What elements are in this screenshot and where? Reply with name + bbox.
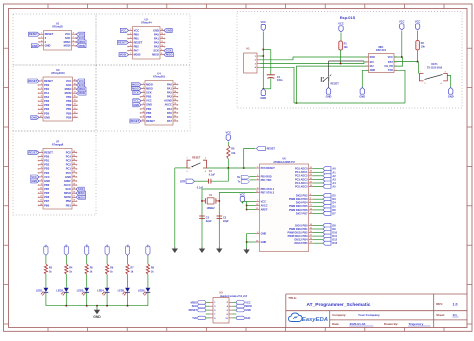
svg-text:PB1: PB1: [134, 36, 140, 40]
net flag D10: [323, 231, 331, 235]
svg-text:GND: GND: [93, 315, 101, 319]
ground GA3: [218, 247, 220, 249]
wire: [65, 274, 67, 287]
svg-text:MISO: MISO: [64, 191, 71, 195]
svg-text:PB1: PB1: [66, 203, 72, 207]
svg-text:RESET: RESET: [44, 150, 53, 154]
svg-text:PB6 XTAL1: PB6 XTAL1: [261, 187, 275, 191]
svg-text:14: 14: [161, 28, 163, 31]
wire: [313, 232, 323, 234]
svg-text:D9: D9: [332, 227, 336, 231]
svg-text:AVCC: AVCC: [261, 203, 268, 207]
svg-text:MOSI: MOSI: [78, 195, 85, 199]
resistor R6 1k: [106, 264, 109, 274]
svg-text:Esp-01S: Esp-01S: [340, 15, 356, 20]
svg-text:ATtiny44: ATtiny44: [141, 21, 152, 25]
svg-text:VCC: VCC: [65, 32, 71, 36]
wire: [45, 292, 47, 305]
svg-text:17: 17: [174, 95, 176, 97]
svg-text:SCK: SCK: [146, 91, 152, 95]
wire: [127, 274, 129, 287]
net flag GND (U7): [31, 179, 39, 183]
section tile box U4: [96, 65, 190, 131]
wire: [106, 292, 108, 305]
svg-text:PWM DIG5 PD5: PWM DIG5 PD5: [289, 204, 308, 208]
svg-text:VCC: VCC: [261, 199, 267, 203]
svg-text:2: 2: [41, 84, 42, 86]
svg-text:10: 10: [161, 45, 163, 47]
svg-text:7: 7: [73, 37, 74, 39]
ground flag GND (ESP reset): [326, 88, 330, 95]
svg-text:TITLE:: TITLE:: [288, 296, 297, 300]
net flag RESET (U2): [117, 41, 128, 45]
svg-text:13: 13: [74, 108, 76, 110]
svg-text:EasyEDA: EasyEDA: [302, 317, 328, 323]
svg-text:15: 15: [310, 227, 312, 229]
net flag RESET (U6): [256, 146, 265, 150]
svg-text:LED1: LED1: [36, 289, 43, 293]
svg-text:4: 4: [41, 43, 42, 46]
svg-text:PA1: PA1: [167, 87, 172, 91]
capacitor C4 0.1uF: [208, 179, 210, 184]
svg-text:PD7: PD7: [44, 199, 50, 203]
svg-text:2020-01-04: 2020-01-04: [350, 322, 366, 326]
junction: [127, 305, 129, 307]
svg-text:LED5: LED5: [118, 289, 125, 293]
svg-text:1: 1: [420, 72, 421, 74]
svg-text:PD2: PD2: [44, 163, 50, 167]
svg-text:PB2: PB2: [66, 103, 72, 107]
svg-text:10: 10: [142, 119, 144, 121]
svg-text:PA0: PA0: [44, 95, 49, 99]
wire: [270, 78, 272, 89]
wire: [127, 255, 129, 264]
svg-text:DIG2 PD2: DIG2 PD2: [296, 194, 308, 198]
junction: [106, 305, 108, 307]
svg-text:PA7: PA7: [134, 49, 139, 53]
wire: [340, 50, 342, 64]
svg-text:PB0: PB0: [134, 32, 140, 36]
ground flag GND (KEY1): [449, 88, 453, 95]
net flag D6 (LED): [125, 246, 129, 255]
wire: [247, 205, 256, 207]
svg-text:RESET: RESET: [189, 309, 198, 312]
svg-text:DIG12 PB4: DIG12 PB4: [294, 238, 308, 242]
svg-text:GND: GND: [44, 179, 50, 183]
svg-text:SCK: SCK: [66, 83, 72, 87]
svg-text:9: 9: [257, 187, 258, 189]
svg-text:9: 9: [161, 49, 162, 51]
wire: [45, 274, 47, 287]
svg-text:PB3: PB3: [146, 95, 152, 99]
svg-text:VCC: VCC: [226, 131, 232, 135]
svg-text:16MHZ: 16MHZ: [206, 207, 215, 210]
svg-text:4: 4: [143, 94, 144, 97]
svg-text:10: 10: [256, 191, 258, 193]
svg-text:28: 28: [73, 151, 75, 153]
junction: [243, 167, 245, 169]
svg-text:5: 5: [73, 44, 74, 46]
wire: [328, 61, 330, 77]
svg-text:VCC: VCC: [240, 192, 246, 196]
svg-text:AGND: AGND: [164, 99, 172, 103]
svg-text:Your Company: Your Company: [358, 313, 380, 317]
wire: [246, 242, 248, 248]
svg-text:DIG4 PD4: DIG4 PD4: [296, 201, 308, 205]
net flag D4 (LED): [85, 246, 89, 255]
wire: [106, 255, 108, 264]
ground GA2: [201, 247, 203, 249]
EasyEDA logo: [289, 313, 303, 322]
svg-text:VCC: VCC: [121, 28, 127, 32]
svg-text:PA3: PA3: [154, 45, 159, 49]
net flag GND (H3): [236, 308, 244, 312]
net flag SCK (U2): [164, 49, 172, 53]
net flag RxD (H3): [236, 316, 244, 320]
svg-text:3: 3: [41, 37, 42, 39]
svg-text:MOSI: MOSI: [79, 91, 86, 95]
svg-text:VCC: VCC: [261, 20, 267, 24]
wire: [206, 313, 210, 315]
svg-text:PD0: PD0: [44, 83, 50, 87]
wire: [206, 305, 210, 307]
svg-text:GND: GND: [31, 179, 37, 183]
net flag D11: [323, 234, 331, 238]
svg-text:10k: 10k: [231, 152, 236, 155]
svg-text:REV:: REV:: [436, 302, 443, 306]
svg-text:1.0: 1.0: [453, 302, 458, 306]
svg-text:VCC: VCC: [44, 175, 50, 179]
svg-text:20: 20: [74, 79, 76, 81]
net flag A2: [323, 174, 331, 178]
svg-text:22pF: 22pF: [223, 220, 229, 223]
svg-text:MISO: MISO: [166, 53, 173, 57]
svg-text:VCC: VCC: [338, 22, 344, 26]
svg-text:GND: GND: [166, 28, 172, 32]
net flag MISO (U1): [77, 40, 87, 44]
svg-text:13: 13: [40, 200, 42, 202]
svg-text:19: 19: [174, 87, 176, 89]
svg-text:MOSI: MOSI: [120, 53, 127, 57]
module MK1 ESP-01S: [369, 54, 395, 73]
capacitor C3 22pF: [199, 215, 205, 217]
svg-text:GND: GND: [32, 44, 38, 48]
svg-text:4: 4: [205, 170, 206, 173]
svg-text:VCC: VCC: [415, 20, 421, 24]
svg-text:12: 12: [174, 115, 176, 117]
svg-text:AT_Programmer_Schematic: AT_Programmer_Schematic: [307, 302, 371, 308]
svg-text:D7: D7: [332, 211, 336, 215]
svg-text:PB0: PB0: [66, 111, 72, 115]
net flag MOSI (U4): [132, 83, 142, 87]
wire: [260, 57, 369, 60]
wire: [147, 292, 149, 305]
svg-text:MISO: MISO: [78, 191, 85, 195]
svg-text:RESET: RESET: [146, 119, 155, 123]
svg-text:7: 7: [41, 104, 42, 106]
svg-text:PB4: PB4: [66, 95, 72, 99]
svg-text:20: 20: [73, 184, 75, 186]
junction: [296, 102, 298, 104]
wire: [263, 49, 271, 51]
wire: [147, 274, 149, 287]
net flag RESET (U7): [28, 151, 39, 155]
svg-text:GND: GND: [326, 95, 332, 99]
svg-text:RESET: RESET: [267, 148, 276, 151]
svg-text:MISO: MISO: [191, 301, 197, 304]
svg-text:D3: D3: [332, 197, 336, 201]
junction: [263, 49, 265, 51]
wire: [127, 292, 129, 305]
svg-text:0.1uF: 0.1uF: [209, 174, 216, 177]
ground GND (LED rail): [96, 308, 98, 310]
ground GA1: [174, 247, 176, 249]
svg-text:3: 3: [445, 72, 446, 74]
svg-text:2: 2: [187, 171, 188, 173]
wire: [246, 201, 248, 209]
net flag GND (U4): [133, 103, 141, 107]
svg-text:IO0: IO0: [370, 61, 375, 64]
svg-text:RESET: RESET: [29, 79, 38, 83]
svg-text:2: 2: [425, 83, 426, 85]
wire: [313, 212, 323, 214]
wire: [194, 180, 208, 182]
svg-text:24: 24: [73, 166, 75, 169]
svg-text:PD3: PD3: [44, 167, 50, 171]
svg-text:A4: A4: [332, 181, 336, 185]
net flag D6: [323, 208, 331, 212]
svg-text:MISO: MISO: [132, 87, 139, 91]
wire: [313, 242, 323, 244]
svg-text:16: 16: [73, 200, 75, 202]
svg-text:4: 4: [130, 40, 131, 43]
svg-text:AVCC: AVCC: [64, 183, 71, 187]
resistor R7 1k: [126, 264, 129, 274]
svg-text:PD0 RXD: PD0 RXD: [261, 174, 272, 178]
svg-text:11: 11: [74, 116, 76, 118]
ground flag GND (MK1): [360, 88, 364, 95]
svg-text:9: 9: [41, 112, 42, 114]
wire: [313, 171, 323, 173]
wire: [86, 292, 88, 305]
wire: [233, 309, 237, 311]
svg-text:TxD: TxD: [192, 317, 197, 320]
svg-text:14: 14: [74, 103, 76, 106]
svg-text:5: 5: [130, 45, 131, 47]
svg-text:PB2: PB2: [134, 45, 140, 49]
svg-text:14: 14: [174, 106, 176, 109]
net flag MOSI (U3): [77, 91, 87, 95]
junction: [263, 88, 265, 90]
svg-text:GND: GND: [45, 44, 51, 48]
wire: [417, 62, 419, 74]
svg-text:ATmega8: ATmega8: [52, 143, 64, 147]
svg-text:10k: 10k: [421, 45, 426, 48]
svg-text:GND: GND: [261, 240, 267, 244]
svg-text:17: 17: [73, 196, 75, 198]
svg-text:VCC: VCC: [133, 99, 139, 103]
svg-text:PB2: PB2: [66, 199, 72, 203]
wire: [233, 305, 237, 307]
svg-text:GND: GND: [359, 95, 365, 99]
junction: [401, 56, 403, 58]
svg-text:12: 12: [310, 208, 312, 210]
ground flag GND (header H1): [261, 89, 265, 96]
wire: [297, 66, 369, 103]
svg-text:ATtiny261: ATtiny261: [153, 75, 166, 79]
net flag RESET (U4): [130, 119, 141, 123]
LED LED1: [44, 288, 49, 292]
svg-text:Sheet:: Sheet:: [436, 313, 445, 317]
IC U1 ATtiny25: [44, 31, 72, 51]
svg-text:PD0: PD0: [44, 155, 50, 159]
svg-text:PA0: PA0: [167, 82, 172, 86]
svg-text:27: 27: [73, 155, 75, 157]
svg-text:26: 26: [73, 159, 75, 161]
svg-text:11: 11: [161, 41, 163, 43]
svg-text:D12: D12: [332, 238, 337, 242]
svg-text:PA0: PA0: [154, 32, 159, 36]
wire: [313, 195, 323, 197]
section tile box U2: [96, 14, 190, 65]
svg-text:1: 1: [41, 151, 42, 153]
svg-text:PD6: PD6: [44, 195, 50, 199]
svg-text:24: 24: [310, 170, 312, 173]
svg-text:LED2: LED2: [56, 289, 63, 293]
svg-text:PD4: PD4: [44, 107, 50, 111]
svg-text:18: 18: [310, 238, 312, 240]
junction: [219, 200, 221, 202]
svg-text:PA2: PA2: [167, 91, 172, 95]
wire: [313, 198, 323, 200]
resistor R9 10k: [227, 145, 230, 158]
svg-text:10k: 10k: [344, 46, 349, 49]
svg-text:GND: GND: [245, 309, 251, 312]
svg-text:MISO: MISO: [65, 87, 72, 91]
svg-text:PWM DIG6 PD6: PWM DIG6 PD6: [289, 208, 308, 212]
svg-text:PC0: PC0: [66, 171, 72, 175]
wire: [206, 317, 210, 319]
svg-text:4: 4: [310, 193, 311, 196]
junction: [96, 305, 98, 307]
junction: [263, 55, 265, 57]
junction: [228, 167, 230, 169]
wire: [227, 142, 229, 146]
wire: [96, 306, 98, 309]
svg-text:GND: GND: [146, 103, 152, 107]
net flag MISO (U2): [164, 53, 174, 57]
svg-text:27: 27: [310, 181, 312, 183]
wire: [417, 50, 419, 62]
svg-text:D5: D5: [332, 204, 336, 208]
svg-text:23: 23: [310, 167, 312, 169]
net flag MISO (U4): [132, 87, 142, 91]
resistor R2 10k: [416, 41, 420, 50]
svg-text:15: 15: [174, 103, 176, 105]
svg-text:1: 1: [143, 83, 144, 85]
wire: [313, 205, 323, 207]
svg-text:U6: U6: [282, 156, 286, 160]
svg-text:D11: D11: [332, 234, 337, 238]
svg-text:PC5: PC5: [66, 150, 72, 154]
wire: [313, 209, 323, 211]
svg-text:VCC: VCC: [66, 79, 72, 83]
svg-text:RESET: RESET: [192, 156, 201, 159]
svg-text:PA7: PA7: [167, 119, 172, 123]
svg-text:PB4: PB4: [146, 107, 152, 111]
svg-text:MISO: MISO: [79, 87, 86, 91]
svg-text:CH_PD: CH_PD: [384, 65, 393, 68]
section tile box U7: [13, 131, 96, 215]
IC U3 ATtiny2313: [43, 77, 73, 121]
wire: [329, 60, 365, 62]
wire: [250, 175, 256, 177]
svg-text:21: 21: [73, 179, 75, 181]
net flag D3 (LED): [64, 246, 68, 255]
svg-text:16: 16: [74, 96, 76, 98]
wire: [401, 31, 403, 57]
svg-text:25: 25: [73, 163, 75, 165]
wire: [247, 234, 256, 242]
svg-text:3: 3: [143, 91, 144, 93]
wire: [294, 102, 405, 104]
svg-text:6: 6: [41, 100, 42, 102]
svg-text:SCK: SCK: [79, 83, 85, 87]
svg-text:4: 4: [41, 39, 42, 42]
wire: [45, 255, 47, 264]
svg-text:19: 19: [74, 84, 76, 86]
svg-text:A1: A1: [332, 170, 336, 174]
svg-text:PWM DIG10 PB2: PWM DIG10 PB2: [288, 230, 309, 234]
title block frame: [285, 294, 287, 328]
svg-text:DIG7 PD7: DIG7 PD7: [296, 211, 308, 215]
svg-text:18: 18: [74, 88, 76, 90]
wire: [394, 61, 418, 63]
svg-text:21: 21: [256, 208, 258, 210]
svg-text:LED4: LED4: [97, 289, 104, 293]
junction: [246, 241, 248, 243]
svg-text:PA4: PA4: [167, 107, 172, 111]
svg-text:MOSI: MOSI: [146, 82, 153, 86]
net flag SCK (U3): [77, 83, 85, 87]
svg-text:SCK: SCK: [78, 187, 84, 191]
svg-text:7: 7: [143, 107, 144, 109]
wire: [86, 255, 88, 264]
svg-text:23: 23: [73, 171, 75, 173]
svg-text:8: 8: [73, 33, 74, 35]
svg-text:1/1: 1/1: [453, 313, 458, 317]
svg-text:PC4: PC4: [66, 155, 72, 159]
wire: [313, 239, 323, 241]
svg-text:PD3: PD3: [44, 103, 50, 107]
svg-text:20: 20: [174, 83, 176, 85]
svg-text:GND: GND: [31, 115, 37, 119]
net flag VCC (U4): [133, 99, 141, 103]
svg-text:8: 8: [161, 53, 162, 55]
resistor R3 1k: [44, 264, 47, 274]
wire: [106, 274, 108, 287]
svg-text:ATMEGA328P-PU: ATMEGA328P-PU: [273, 160, 295, 164]
svg-text:MOSI: MOSI: [64, 195, 71, 199]
wire: [244, 149, 256, 169]
net flag D8: [323, 223, 331, 227]
net flag D7 (LED): [146, 246, 150, 255]
svg-text:PD6: PD6: [66, 115, 72, 119]
svg-text:13: 13: [174, 111, 176, 113]
svg-text:22: 22: [256, 240, 258, 242]
net flag D5: [323, 204, 331, 208]
net flag D2 (LED): [44, 246, 48, 255]
